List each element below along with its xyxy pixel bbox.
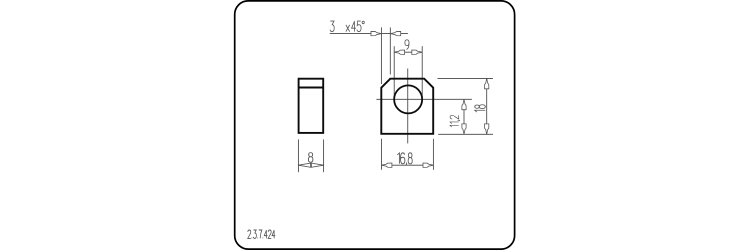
wire: extension line from part bottom edge to the right	[438, 133, 493, 135]
part outlines (thick)	[299, 79, 434, 134]
arrowhead 18 dim bottom	[485, 124, 489, 134]
wire: chamfer dimension leader line "3 x45"	[330, 33, 408, 35]
dimension arrowheads (hollow)	[298, 31, 488, 167]
arrowhead 16.8 dim right	[423, 163, 433, 167]
side view rectangle	[299, 79, 324, 133]
wire: dimension line for height 18	[486, 78, 488, 134]
wire: vertical centerline of front view	[407, 69, 409, 144]
wire: right extension line below side view	[323, 139, 325, 172]
front view outline with chamfered top corners	[381, 79, 433, 134]
wire: left extension line below front view	[381, 139, 383, 170]
wire: horizontal centerline of hole extended right	[376, 98, 472, 100]
wire: right extension line below front view	[432, 139, 434, 170]
wire: extension line hole left tangent	[393, 46, 395, 99]
border frame	[235, 1, 515, 249]
wire: dimension line for height 11.2	[463, 99, 465, 134]
arrowhead 11.2 dim bottom	[462, 124, 466, 134]
arrowhead 11.2 dim top	[462, 99, 466, 109]
wire: dimension line for hole dia 9	[394, 51, 422, 53]
arrowhead dia-9 dim left	[394, 50, 404, 54]
dimension texts (single-stroke glyphs)	[248, 21, 486, 238]
arrowhead chamfer dim right	[390, 31, 400, 35]
wire: extension line from part top edge to the right	[438, 77, 494, 79]
wire: dimension line for width 8	[298, 164, 323, 166]
arrowhead chamfer dim left	[371, 31, 381, 35]
arrowhead 16.8 dim left	[382, 163, 392, 167]
wire: extension line from part top-left corner	[380, 27, 382, 84]
hole circle	[394, 85, 422, 113]
wire: extension line from chamfer top point	[389, 27, 391, 74]
text: 8	[308, 153, 313, 163]
arrowhead 18 dim top	[485, 78, 489, 88]
text: 18 (rotated)	[475, 105, 486, 112]
wire: left extension line below side view	[297, 139, 299, 172]
text: 11.2 (rotated)	[450, 115, 460, 127]
wire: extension line hole right tangent	[421, 46, 423, 99]
arrowhead 8 dim right	[311, 163, 323, 167]
side view chamfer edge line	[299, 87, 324, 89]
wire: dimension line for width 16.8	[382, 164, 434, 166]
text: 16.8	[397, 153, 412, 166]
arrowhead dia-9 dim right	[412, 50, 422, 54]
text: 9	[405, 40, 409, 50]
text: 3 x45deg	[330, 21, 364, 32]
text: 2.3.7.424 drawing number	[248, 230, 275, 238]
arrowhead 8 dim left	[298, 163, 310, 167]
